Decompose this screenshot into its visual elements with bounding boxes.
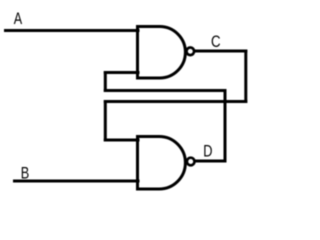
- wire: D feedback horizontal run: [104, 89, 227, 92]
- svg-text:D: D: [203, 142, 212, 161]
- wire: input B to U2 pin 2: [13, 180, 140, 183]
- wire: D feedback to U1 pin 2: [104, 71, 140, 74]
- wire: C feedback horizontal run: [104, 100, 248, 103]
- wire: C feedback to U2 pin 1: [104, 139, 140, 142]
- NAND gate U2: [138, 137, 195, 190]
- NAND gate U1: [138, 27, 195, 79]
- wire: C feedback drop to U2 level: [104, 100, 107, 142]
- svg-text:C: C: [211, 33, 221, 52]
- wire: U2 output to node D: [196, 160, 227, 163]
- wire: node C down right edge: [244, 50, 247, 104]
- wire: input A to U1 pin 1: [4, 29, 140, 32]
- wire: node D feedback up: [224, 89, 227, 163]
- svg-text:A: A: [14, 9, 22, 28]
- wire: U1 output to node C: [195, 50, 247, 53]
- wire: D feedback rise to U1 level: [104, 71, 107, 92]
